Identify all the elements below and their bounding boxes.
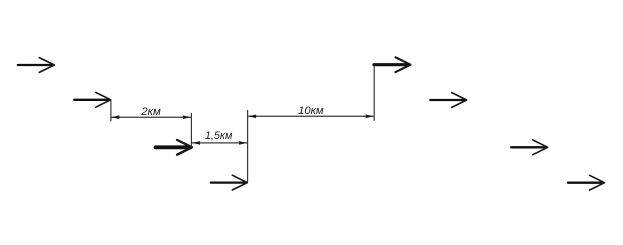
svg-text:10км: 10км [298,105,324,117]
svg-text:1,5км: 1,5км [205,130,233,142]
svg-text:2км: 2км [140,106,161,118]
